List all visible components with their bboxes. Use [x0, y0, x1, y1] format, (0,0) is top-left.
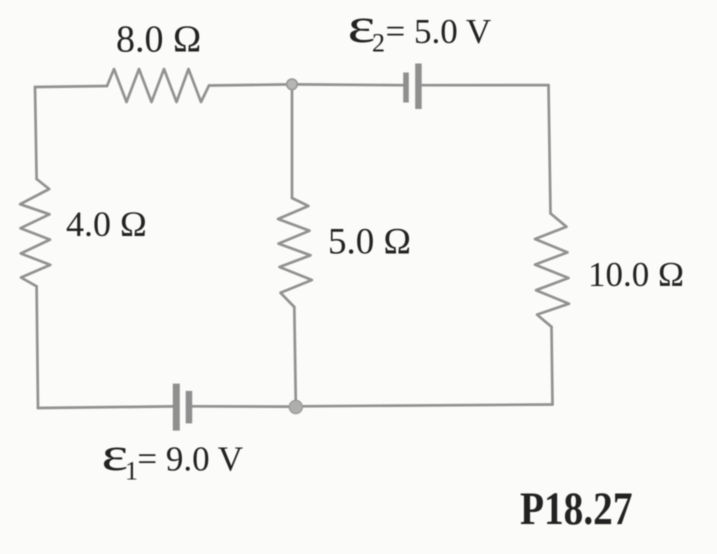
- wire right vertical lower: [552, 327, 553, 405]
- wire left vertical lower: [37, 286, 38, 408]
- wire middle vertical upper: [291, 84, 294, 198]
- wire middle vertical lower: [294, 307, 296, 404]
- wire right vertical upper: [549, 85, 551, 213]
- wire bottom right: [300, 405, 553, 407]
- svg-text:10.0 Ω: 10.0 Ω: [588, 255, 684, 294]
- wire bottom node to battery E1: [192, 405, 292, 408]
- battery E2 positive long plate: [415, 64, 422, 110]
- svg-text:P18.27: P18.27: [520, 483, 633, 535]
- resistor 4.0 ohm: [20, 179, 50, 286]
- wire top-left lead: [35, 86, 107, 87]
- resistor 10.0 ohm: [535, 213, 569, 326]
- svg-text:1: 1: [125, 457, 138, 486]
- svg-text:4.0 Ω: 4.0 Ω: [66, 204, 147, 244]
- svg-text:= 9.0 V: = 9.0 V: [137, 440, 243, 479]
- svg-text:= 5.0 V: = 5.0 V: [386, 12, 492, 51]
- svg-text:2: 2: [372, 28, 385, 57]
- resistor 8.0 ohm: [107, 69, 209, 102]
- node top junction: [287, 79, 298, 90]
- wire top node to battery E2: [294, 83, 403, 86]
- wire battery E2 to top-right corner: [422, 84, 549, 87]
- svg-text:5.0 Ω: 5.0 Ω: [328, 222, 411, 263]
- wire battery E1 to bottom-left corner: [38, 406, 173, 408]
- battery E1 positive long plate: [173, 384, 180, 431]
- wire left vertical upper: [35, 87, 37, 179]
- resistor 5.0 ohm: [278, 198, 312, 307]
- wire resistor to top node: [209, 84, 290, 85]
- node bottom junction: [289, 400, 302, 413]
- svg-text:8.0 Ω: 8.0 Ω: [116, 19, 201, 61]
- battery E1 negative short plate: [186, 391, 193, 424]
- battery E2 negative short plate: [403, 73, 409, 103]
